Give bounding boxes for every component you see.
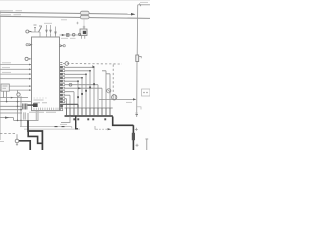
dashed wire mid <box>63 63 122 66</box>
wire fuse to relay <box>83 19 85 27</box>
mesh horizontal 4 <box>0 109 22 111</box>
circle at relay edge <box>78 33 80 35</box>
pin dash pair <box>60 63 62 65</box>
pins under U1 <box>36 111 38 120</box>
dashed drop <box>112 65 114 95</box>
comb bottom rail <box>65 115 113 117</box>
wire W12 dark <box>60 104 78 108</box>
arrow from node <box>29 31 32 32</box>
node circle left <box>25 57 28 60</box>
comb teeth <box>67 108 111 116</box>
label above contacts <box>44 22 52 24</box>
stub rail to lower rail <box>20 120 22 126</box>
contact arrow b <box>50 25 52 33</box>
wire W1 <box>65 67 95 108</box>
mesh vertical c <box>17 91 19 121</box>
comb left connector glyphs <box>60 105 62 107</box>
wire W10 <box>65 99 67 108</box>
solenoid circle M1 <box>112 95 117 100</box>
long rail A <box>20 127 72 129</box>
node glyph on dashed wire <box>65 62 69 66</box>
wire L1 <box>0 64 32 66</box>
mesh horizontal 2 <box>0 101 32 103</box>
mesh vertical b <box>6 91 8 101</box>
arrow on relay wire <box>62 34 65 36</box>
thick harness staircase <box>28 120 42 150</box>
node circle on relay wire <box>72 33 75 36</box>
wire right vertical <box>137 5 138 117</box>
label row under U1 <box>29 111 56 113</box>
thick harness staircase inner <box>28 131 42 143</box>
ECU box U1 <box>32 37 60 111</box>
U1 dark label block <box>33 103 38 107</box>
fuse F1 <box>80 11 89 15</box>
wire W7 <box>65 88 103 108</box>
connector squares on drops <box>93 83 95 85</box>
pin U1 left upper <box>29 44 32 46</box>
label under relay wire <box>61 37 76 39</box>
pins under comb <box>73 118 75 120</box>
U1 internal label rows <box>34 100 48 103</box>
label right wire <box>135 112 138 114</box>
wire bus 30 <box>0 12 135 14</box>
mesh junction dots <box>6 101 8 103</box>
connector cross 1 <box>135 128 138 131</box>
corner dots on nested wires <box>89 70 91 72</box>
wire W6 <box>65 85 99 108</box>
node circle mesh <box>17 93 20 96</box>
stub left of ground circle <box>0 141 4 143</box>
thin top of harness <box>27 113 29 120</box>
label bus 30 <box>1 10 22 12</box>
pin U1 right upper <box>60 45 63 47</box>
stub branch right wire <box>137 107 141 110</box>
arrow wire bottom left <box>0 117 14 119</box>
component box B1 <box>1 84 9 91</box>
wire U1 to relay <box>60 34 81 36</box>
label top right <box>140 1 148 3</box>
mesh horizontal 3 <box>0 105 22 107</box>
wire L6 <box>0 89 32 91</box>
wire W9 <box>65 95 71 108</box>
wire W3 spur <box>106 74 110 108</box>
stub wire bottom right <box>146 140 148 151</box>
long rail B <box>24 128 80 130</box>
wire W11 <box>65 101 66 103</box>
wire L5 <box>9 85 31 87</box>
wire W5 <box>65 81 79 108</box>
mesh vertical d <box>20 96 22 120</box>
wire W2 spur <box>102 71 106 108</box>
pin pair below rail <box>24 112 25 119</box>
contact arrow a <box>46 25 48 33</box>
mesh horizontal 5 <box>0 112 22 114</box>
wire top components rail <box>31 31 40 33</box>
wire W2 <box>65 71 91 108</box>
wire W8 <box>65 92 75 108</box>
small sensor circle <box>107 89 111 93</box>
hatch block <box>23 104 27 110</box>
arrow on W7 <box>78 87 82 89</box>
label bus 15 <box>1 14 21 16</box>
page edge line left <box>0 10 1 140</box>
wire L4 <box>0 78 32 80</box>
wire bus 15 <box>0 16 150 18</box>
dark lead left of U1 <box>28 104 34 106</box>
component on bottom right drop <box>132 133 135 140</box>
label under wire <box>126 101 132 103</box>
component above box small <box>34 25 37 32</box>
fuse F2 <box>80 15 89 19</box>
component R2 on right wire <box>136 55 139 62</box>
connector square on relay wire <box>67 34 70 37</box>
junction rail <box>14 119 39 121</box>
tick on corner <box>140 3 141 6</box>
wire top-right corner <box>138 4 150 6</box>
node circle on W6 <box>69 83 72 86</box>
connector cross 2 <box>136 144 139 147</box>
arrow at W1 corner <box>92 65 95 68</box>
wire W4 <box>65 78 83 108</box>
mesh vertical a <box>2 91 4 97</box>
comb left drop <box>61 116 70 123</box>
page edge line top <box>0 0 150 1</box>
label above rail <box>60 123 67 125</box>
switch S1 <box>39 26 43 32</box>
comb to right corner thick <box>113 117 134 151</box>
wire L2 <box>0 68 32 70</box>
thick ground harness <box>19 141 30 150</box>
relay K1 <box>80 29 87 36</box>
label mid bus <box>61 19 67 21</box>
U1 internal dashed divider <box>34 97 48 99</box>
dark dashes on rail A <box>55 126 65 128</box>
contact arrow c <box>55 27 57 35</box>
comb top rail <box>65 107 113 109</box>
wire through M1 <box>99 98 133 100</box>
small box right <box>142 89 151 96</box>
thick drop from comb <box>76 117 78 129</box>
wire L3 <box>0 73 32 75</box>
mesh horizontal 1 <box>0 97 28 99</box>
U1 bottom pin ticks <box>34 108 58 110</box>
dashed ground wire <box>0 133 17 135</box>
node circle above box <box>26 30 29 33</box>
stub and dashed arrow mid bottom <box>95 126 98 129</box>
tick end of right wire <box>135 114 138 116</box>
wire W3 <box>65 74 87 108</box>
ground connector circle <box>15 139 19 143</box>
cross mark <box>76 22 78 24</box>
arrow into right node <box>131 13 135 16</box>
